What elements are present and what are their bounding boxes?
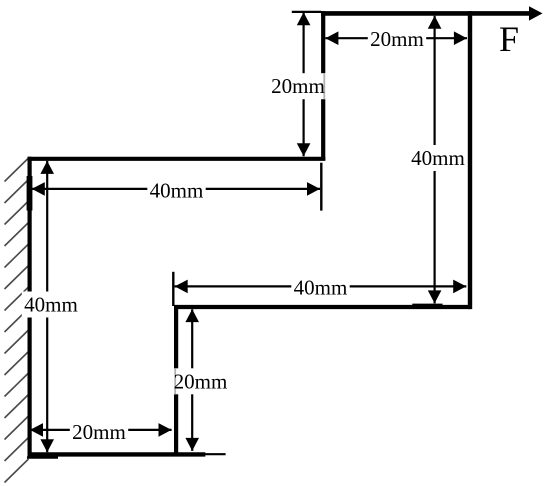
svg-text:40mm: 40mm xyxy=(24,293,78,317)
svg-text:40mm: 40mm xyxy=(150,179,204,203)
svg-text:F: F xyxy=(499,19,519,59)
svg-text:20mm: 20mm xyxy=(72,420,126,444)
svg-text:20mm: 20mm xyxy=(271,74,325,98)
svg-text:20mm: 20mm xyxy=(174,369,228,393)
svg-text:40mm: 40mm xyxy=(411,146,465,170)
svg-text:40mm: 40mm xyxy=(294,276,348,300)
svg-text:20mm: 20mm xyxy=(370,27,424,51)
